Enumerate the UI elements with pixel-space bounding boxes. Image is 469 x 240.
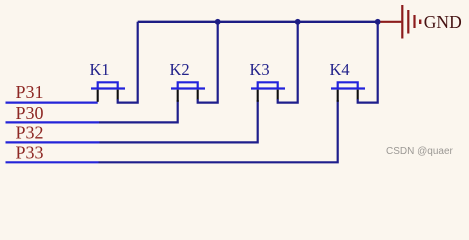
ground symbol: [380, 5, 420, 39]
svg-text:P33: P33: [16, 142, 44, 162]
svg-text:K1: K1: [90, 60, 110, 79]
wire: top GND bus: [138, 21, 379, 23]
push button K3: [251, 82, 285, 102]
wire: K2 right pin to top bus: [198, 22, 218, 103]
push button K1: [91, 82, 125, 102]
wire: K3 right pin to top bus: [278, 22, 298, 103]
wire: K1 right pin to top bus: [118, 22, 138, 103]
svg-text:K3: K3: [250, 60, 270, 79]
wire: net P32 (to K3 left pin): [6, 141, 100, 143]
svg-text:P30: P30: [16, 103, 44, 123]
junction dot at K3 bus tap: [295, 19, 301, 25]
svg-text:CSDN @quaer: CSDN @quaer: [386, 146, 454, 157]
wire: K4 right pin to top bus: [358, 22, 378, 103]
svg-text:P31: P31: [16, 82, 44, 102]
junction dot at K2 bus tap: [215, 19, 221, 25]
push button K2: [171, 82, 205, 102]
wire: net P33 (to K4 left pin): [6, 161, 99, 163]
svg-text:GND: GND: [424, 12, 462, 32]
svg-text:K2: K2: [170, 60, 190, 79]
junction dot at K4/GND bus tap: [375, 19, 381, 25]
svg-text:P32: P32: [16, 123, 44, 143]
push button K4: [331, 82, 365, 102]
svg-text:K4: K4: [330, 60, 350, 79]
wire: net P30 (to K2 left pin): [6, 121, 100, 123]
wire: net P31 (to K1 left pin): [6, 101, 98, 103]
